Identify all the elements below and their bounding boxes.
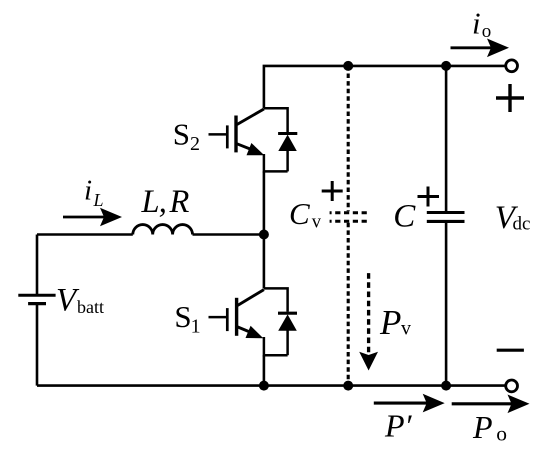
- svg-text:v: v: [312, 212, 322, 232]
- transistor S1 (IGBT): [209, 290, 264, 339]
- node: bottom rail / Cv junction: [343, 381, 353, 391]
- emitter diagonal: [238, 327, 253, 333]
- wire mid node down to S1 collector corner: [263, 235, 266, 289]
- node: top rail / C junction: [441, 61, 451, 71]
- svg-text:i: i: [472, 6, 481, 41]
- body bar: [235, 298, 238, 336]
- svg-text:i: i: [84, 175, 92, 207]
- terminal circle bottom: [506, 380, 518, 392]
- transistor S2 (IGBT): [209, 109, 265, 155]
- capacitor C plates: [427, 211, 465, 214]
- wire S1 collector corner to diode top: [264, 288, 288, 311]
- node: top rail / Cv junction: [343, 61, 353, 71]
- svg-text:L: L: [93, 190, 104, 210]
- capacitor C wire upper: [445, 66, 448, 211]
- svg-text:v: v: [401, 318, 411, 340]
- svg-text:P: P: [472, 409, 493, 445]
- collector diagonal: [237, 109, 264, 125]
- svg-text:P′: P′: [384, 408, 413, 444]
- minus sign output: [497, 349, 524, 352]
- svg-text:dc: dc: [513, 213, 531, 234]
- node: bottom rail / leg junction: [259, 381, 269, 391]
- current io arrow: [451, 39, 510, 58]
- body bar: [234, 116, 237, 153]
- svg-text:2: 2: [190, 133, 200, 155]
- battery Vbatt: [18, 295, 55, 303]
- wire diode bottom to S1 emitter: [264, 337, 288, 355]
- wire S2 collector corner to diode top: [264, 108, 288, 132]
- node: bottom rail / C junction: [441, 381, 451, 391]
- wire S1 emitter down to bottom rail: [263, 355, 266, 385]
- wire S2 emitter down to mid node: [263, 171, 266, 234]
- inductor L,R: [133, 225, 193, 235]
- middle rail right segment: [193, 233, 264, 236]
- svg-text:1: 1: [191, 315, 201, 337]
- bottom rail wire: [37, 384, 505, 387]
- terminal circle top: [506, 60, 518, 72]
- emitter diagonal: [237, 144, 253, 150]
- svg-text:C: C: [393, 199, 416, 235]
- power Pv dashed arrow: [359, 273, 378, 370]
- svg-text:C: C: [289, 196, 310, 231]
- diode D1: [278, 313, 297, 355]
- capacitor Cv dashed wire upper: [347, 66, 350, 211]
- emitter arrow head: [246, 326, 264, 338]
- wire diode bottom to S2 emitter: [264, 154, 288, 171]
- capacitor Cv dashed plates: [330, 211, 368, 214]
- top rail wire: [264, 66, 505, 108]
- collector diagonal: [238, 290, 264, 306]
- svg-text:o: o: [496, 421, 507, 445]
- svg-text:o: o: [482, 21, 492, 42]
- left wire lower: [36, 305, 39, 386]
- plus sign C: [418, 187, 440, 207]
- svg-text:S: S: [174, 299, 191, 334]
- capacitor C wire lower: [445, 223, 448, 386]
- gate bar: [226, 125, 229, 148]
- svg-text:L,R: L,R: [141, 184, 190, 220]
- gate lead: [209, 316, 227, 319]
- current iL arrow: [63, 208, 122, 227]
- plus sign output top: [496, 84, 524, 112]
- emitter arrow head: [247, 143, 265, 155]
- diode D2: [278, 134, 297, 172]
- svg-text:P: P: [379, 303, 401, 342]
- svg-text:batt: batt: [77, 297, 104, 317]
- power Po arrow: [452, 395, 530, 414]
- svg-text:S: S: [173, 116, 190, 151]
- middle rail left segment: [37, 233, 133, 236]
- gate lead: [209, 133, 227, 136]
- gate bar: [226, 308, 229, 331]
- power P' arrow: [374, 394, 445, 413]
- node: mid rail / leg junction: [259, 230, 269, 240]
- capacitor Cv dashed wire lower: [347, 223, 350, 386]
- plus sign Cv: [322, 181, 343, 201]
- left wire upper: [36, 235, 39, 295]
